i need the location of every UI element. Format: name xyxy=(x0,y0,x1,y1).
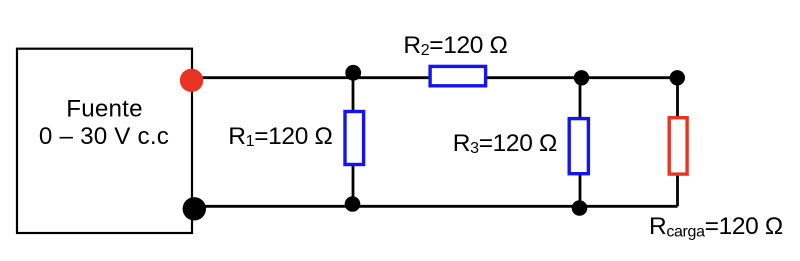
node R1 top junction xyxy=(345,65,361,81)
svg-text:0 – 30 V c.c: 0 – 30 V c.c xyxy=(39,123,169,150)
wire R3 branch xyxy=(579,78,582,207)
svg-text:R1=120 Ω: R1=120 Ω xyxy=(228,123,332,150)
resistor Rcarga (red) xyxy=(669,118,687,174)
resistor R1 xyxy=(345,112,364,165)
node R3 bottom junction xyxy=(572,200,588,216)
wire bottom bus xyxy=(194,205,678,208)
terminal + (red) xyxy=(180,69,203,92)
svg-text:Fuente: Fuente xyxy=(66,95,143,122)
resistor R3 xyxy=(569,119,588,174)
svg-text:R2=120 Ω: R2=120 Ω xyxy=(403,32,507,59)
wire Rcarga branch xyxy=(676,78,679,207)
svg-text:R3=120 Ω: R3=120 Ω xyxy=(453,130,557,157)
source box Fuente xyxy=(17,49,192,233)
wire R1 branch xyxy=(352,72,355,206)
wire top bus xyxy=(192,76,677,79)
resistor R2 xyxy=(430,66,486,85)
node R1 bottom junction xyxy=(345,196,361,212)
node Rcarga top junction xyxy=(670,70,685,85)
terminal - (black) xyxy=(183,197,206,220)
node R3 top junction xyxy=(574,70,589,85)
